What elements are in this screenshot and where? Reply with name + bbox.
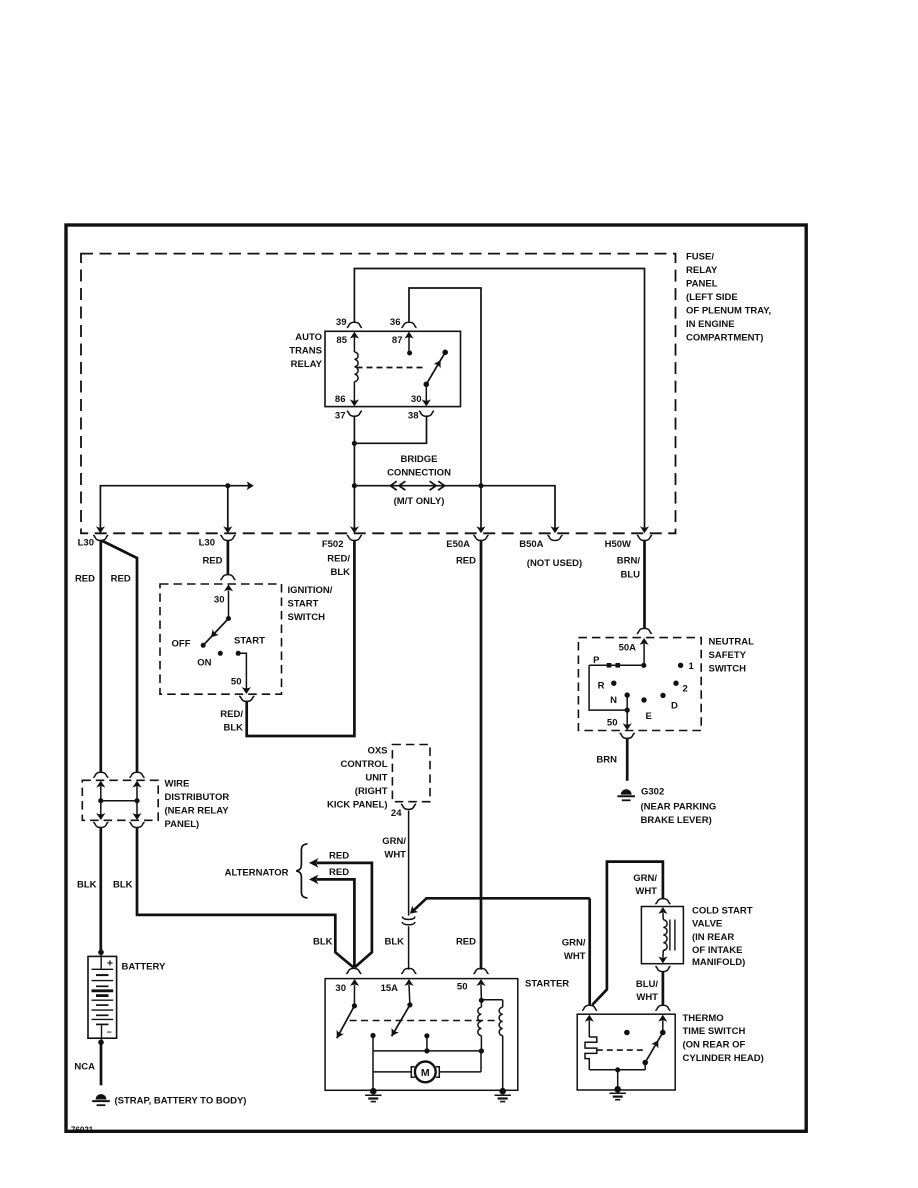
NSS contact 1 [678, 663, 683, 668]
thermo internal bus [589, 1069, 645, 1071]
svg-text:UNIT: UNIT [365, 772, 387, 783]
thermo right terminal [658, 1015, 667, 1022]
connector end above neutral safety switch [637, 628, 652, 633]
auto trans relay K1 outline [325, 331, 461, 406]
svg-text:30: 30 [411, 394, 422, 405]
thermo left terminal [585, 1015, 594, 1022]
wire branch to second L30 [227, 486, 229, 529]
wire GRN/WHT from OXS pin 24 [408, 811, 410, 916]
svg-text:D: D [671, 700, 678, 711]
svg-text:BLK: BLK [313, 936, 333, 947]
wire L30 RED diagonal branch [102, 541, 138, 772]
svg-text:30: 30 [335, 983, 346, 994]
svg-text:G302: G302 [641, 786, 664, 797]
svg-text:50A: 50A [619, 642, 637, 653]
svg-text:RELAY: RELAY [686, 265, 718, 276]
ignition OFF contact [201, 643, 206, 648]
ground G302 [621, 789, 632, 794]
relay pin 86 terminal [350, 399, 359, 406]
thermo free contact [624, 1030, 630, 1036]
starter contact below 30 [370, 1033, 375, 1038]
svg-text:AUTO: AUTO [295, 332, 322, 343]
NSS N contact [625, 692, 630, 697]
cold start valve outline [641, 907, 683, 964]
svg-text:P: P [593, 655, 600, 666]
bridge connection chevrons [390, 481, 396, 490]
wire E50A RED to starter [480, 541, 483, 970]
fuse/relay panel dashed outline [81, 254, 676, 534]
starter internal bus [372, 1036, 374, 1092]
starter solenoid node [479, 998, 484, 1003]
relay switch pivot [424, 382, 430, 388]
svg-text:THERMO: THERMO [683, 1013, 724, 1024]
connector B50A (not used) [547, 535, 562, 540]
svg-text:OF INTAKE: OF INTAKE [692, 945, 743, 956]
bridge connection wire [354, 486, 555, 529]
wire L30 RED to ignition switch [227, 541, 230, 575]
svg-text:BLK: BLK [223, 722, 243, 733]
wire BRN to ground [626, 739, 629, 781]
connector ends above wire distributor [93, 772, 108, 777]
svg-text:RED: RED [75, 573, 95, 584]
relay pin 38 connector [419, 411, 434, 416]
svg-text:87: 87 [392, 335, 403, 346]
wire relay 37/38 junction to F502 [353, 417, 355, 444]
svg-text:50: 50 [231, 676, 242, 687]
distributor output terminals [96, 813, 105, 820]
svg-text:BLK: BLK [330, 567, 350, 578]
starter ground right [499, 1088, 506, 1095]
connector below ignition switch [239, 696, 254, 701]
svg-text:OF PLENUM TRAY,: OF PLENUM TRAY, [686, 305, 771, 316]
svg-text:39: 39 [336, 317, 347, 328]
svg-text:F502: F502 [322, 539, 344, 550]
svg-text:(IN REAR: (IN REAR [692, 932, 734, 943]
svg-text:GRN/: GRN/ [382, 836, 406, 847]
svg-text:RED: RED [202, 555, 222, 566]
svg-text:RED: RED [456, 936, 476, 947]
svg-text:FUSE/: FUSE/ [686, 251, 714, 262]
svg-text:30: 30 [214, 594, 225, 605]
svg-text:CYLINDER HEAD): CYLINDER HEAD) [683, 1053, 764, 1064]
NSS terminal 50 [623, 723, 632, 730]
svg-text:MANIFOLD): MANIFOLD) [692, 957, 745, 968]
svg-text:BLU/: BLU/ [636, 979, 659, 990]
alternator brace [296, 844, 307, 898]
svg-text:GRN/: GRN/ [562, 937, 586, 948]
wire F502 RED/BLK to ignition switch [247, 541, 355, 736]
relay coil [353, 337, 355, 352]
svg-text:(LEFT SIDE: (LEFT SIDE [686, 292, 738, 303]
wire GRN/WHT bridge to cold start valve [592, 862, 663, 1005]
wire GRN/WHT branch to thermo switch [413, 898, 590, 911]
svg-text:BRN/: BRN/ [617, 555, 641, 566]
svg-text:M: M [421, 1067, 430, 1079]
wire H50W BRN/BLU to neutral safety switch [643, 541, 646, 629]
wire BLU/WHT cold start valve to thermo switch [662, 972, 665, 1005]
svg-text:TIME SWITCH: TIME SWITCH [683, 1026, 746, 1037]
svg-text:WIRE: WIRE [165, 778, 190, 789]
starter ground left [370, 1088, 377, 1095]
connector L30 second [220, 535, 235, 540]
connector end above ignition switch [220, 575, 235, 580]
ignition switch lever [203, 619, 228, 646]
svg-text:IGNITION/: IGNITION/ [288, 585, 333, 596]
ignition terminal 50 [238, 653, 246, 688]
node L30 branch [225, 483, 230, 488]
svg-text:(M/T ONLY): (M/T ONLY) [394, 496, 445, 507]
battery outline [88, 956, 117, 1038]
svg-text:RED: RED [329, 851, 349, 862]
svg-text:TRANS: TRANS [289, 345, 322, 356]
relay pin 36 wire to E50A [409, 288, 481, 528]
svg-text:38: 38 [408, 410, 419, 421]
connector F502 [347, 535, 362, 540]
diagram outer border [66, 225, 806, 1131]
NSS terminal 50A [640, 638, 649, 645]
starter switch 15A pivot [407, 1002, 412, 1007]
OXS control unit outline [392, 745, 430, 802]
svg-text:24: 24 [391, 808, 402, 819]
wire feeder to L30 connectors [100, 486, 249, 529]
starter solenoid pull-in coil [480, 1000, 482, 1007]
wire RED alternator upper [309, 858, 319, 868]
starter terminal 30 [350, 979, 359, 986]
svg-text:H50W: H50W [605, 539, 631, 550]
svg-text:N: N [610, 695, 617, 706]
node bridge junction at F502 [352, 483, 357, 488]
connector L30 first [93, 535, 108, 540]
svg-text:RED: RED [456, 555, 476, 566]
svg-text:50: 50 [457, 981, 468, 992]
starter contact below 15A [424, 1033, 429, 1038]
NSS P terminal wire [641, 663, 646, 668]
NSS contact E [641, 697, 646, 702]
svg-text:BLK: BLK [77, 879, 97, 890]
starter dashed link [350, 1020, 498, 1022]
svg-text:WHT: WHT [564, 951, 586, 962]
battery plates [100, 952, 102, 969]
svg-text:STARTER: STARTER [525, 978, 569, 989]
svg-text:(STRAP, BATTERY TO BODY): (STRAP, BATTERY TO BODY) [115, 1095, 247, 1106]
relay switch lever [426, 352, 445, 384]
wire NCA battery to body strap [100, 1042, 103, 1085]
svg-text:(NOT USED): (NOT USED) [527, 558, 582, 569]
node bridge junction at E50A [478, 483, 483, 488]
svg-text:L30: L30 [199, 537, 215, 548]
connectors above thermo time switch [582, 1005, 597, 1010]
wire BLK distributor to starter 30 [137, 828, 354, 968]
starter switch 30 lever [337, 1006, 355, 1038]
svg-text:ALTERNATOR: ALTERNATOR [225, 867, 289, 878]
neutral safety switch outline [578, 638, 701, 731]
svg-text:36: 36 [390, 317, 401, 328]
svg-text:START: START [234, 635, 265, 646]
relay pin 36 connector [401, 322, 416, 327]
svg-text:OFF: OFF [172, 638, 191, 649]
svg-text:(RIGHT: (RIGHT [355, 786, 388, 797]
connector below cold start valve [655, 966, 670, 971]
connector H50W [637, 535, 652, 540]
svg-text:SWITCH: SWITCH [288, 612, 326, 623]
connector ends above starter [346, 968, 361, 973]
svg-text:RED/: RED/ [220, 709, 243, 720]
wire BLK to starter 15A [408, 926, 410, 969]
svg-text:B50A: B50A [519, 539, 543, 550]
svg-text:E: E [646, 711, 652, 722]
starter terminal 15A [404, 979, 413, 986]
svg-text:RED/: RED/ [327, 553, 350, 564]
thermo dashed link [597, 1049, 647, 1051]
cold start valve core [669, 920, 671, 951]
svg-text:1: 1 [689, 661, 695, 672]
starter switch 30 pivot [352, 1003, 357, 1008]
ignition switch pivot [226, 616, 231, 621]
cold start valve bottom terminal [658, 956, 667, 963]
svg-text:E50A: E50A [446, 539, 470, 550]
cold start valve coil [663, 920, 667, 951]
ground strap battery to body [96, 1094, 107, 1099]
svg-text:WHT: WHT [384, 849, 406, 860]
svg-text:37: 37 [335, 410, 346, 421]
svg-text:BRN: BRN [596, 754, 617, 765]
svg-text:WHT: WHT [635, 886, 657, 897]
svg-text:86: 86 [335, 394, 346, 405]
wire RED alternator lower [309, 875, 319, 885]
ignition ON contact [218, 651, 223, 656]
thermo ground [614, 1086, 621, 1093]
svg-text:BLU: BLU [620, 569, 640, 580]
svg-text:PANEL: PANEL [686, 278, 718, 289]
svg-text:VALVE: VALVE [692, 919, 722, 930]
svg-text:BRIDGE: BRIDGE [401, 454, 438, 465]
ignition START contact [236, 651, 241, 656]
svg-text:GRN/: GRN/ [633, 873, 657, 884]
starter solenoid hold-in coil [502, 1000, 504, 1007]
svg-text:(NEAR PARKING: (NEAR PARKING [641, 801, 717, 812]
thermo switch lower contact [642, 1060, 648, 1066]
svg-text:START: START [288, 598, 319, 609]
svg-text:BLK: BLK [113, 879, 133, 890]
starter motor M [373, 1071, 411, 1073]
distributor internal wires [100, 787, 102, 801]
connector below neutral safety switch [620, 733, 635, 738]
connector E50A [473, 535, 488, 540]
svg-text:BATTERY: BATTERY [122, 961, 166, 972]
svg-text:SAFETY: SAFETY [709, 650, 747, 661]
svg-text:OXS: OXS [367, 745, 387, 756]
svg-text:RED: RED [329, 867, 349, 878]
svg-text:BRAKE LEVER): BRAKE LEVER) [641, 815, 712, 826]
svg-text:+: + [107, 958, 113, 970]
OXS pin 24 connector [401, 804, 416, 809]
svg-text:50: 50 [607, 717, 618, 728]
thermo heater element [585, 1037, 597, 1070]
thermo time switch outline [577, 1014, 675, 1090]
relay pin 30 terminal [425, 384, 427, 401]
battery negative node [98, 1040, 104, 1046]
starter switch 15A lever [392, 1005, 410, 1036]
svg-text:KICK PANEL): KICK PANEL) [327, 799, 388, 810]
svg-text:15A: 15A [381, 983, 399, 994]
battery positive node [98, 950, 104, 956]
svg-text:L30: L30 [78, 537, 94, 548]
svg-text:76021: 76021 [71, 1126, 94, 1135]
distributor input terminals [96, 781, 105, 788]
wire BLK distributor to battery [99, 828, 102, 952]
svg-text:DISTRIBUTOR: DISTRIBUTOR [165, 792, 230, 803]
svg-text:ON: ON [197, 657, 211, 668]
svg-text:SWITCH: SWITCH [709, 663, 747, 674]
NSS contact 2 [673, 681, 678, 686]
starter terminal 50 [476, 979, 485, 986]
connectors below wire distributor [93, 822, 108, 827]
thermo switch lever [645, 1033, 663, 1063]
starter outline [325, 979, 518, 1091]
svg-text:COLD START: COLD START [692, 905, 753, 916]
cold start valve top terminal [658, 907, 667, 914]
svg-text:CONNECTION: CONNECTION [387, 467, 451, 478]
wire distributor outline [82, 780, 158, 820]
svg-text:RED: RED [111, 573, 131, 584]
thermo switch upper contact [660, 1030, 666, 1036]
svg-text:PANEL): PANEL) [165, 819, 200, 830]
NSS contact R [611, 681, 616, 686]
ignition terminal 30 [224, 584, 233, 591]
svg-text:IN ENGINE: IN ENGINE [686, 319, 735, 330]
svg-text:2: 2 [683, 683, 688, 694]
relay armature dashed link [357, 367, 425, 369]
relay pin 87 terminal [404, 332, 413, 339]
relay pin 39 wire to H50W [354, 269, 644, 529]
NSS contact D [660, 693, 665, 698]
relay pin 39 connector [347, 322, 362, 327]
svg-text:NEUTRAL: NEUTRAL [709, 636, 755, 647]
wire GRN/WHT to thermo time switch [588, 898, 591, 1004]
connector above cold start valve [655, 899, 670, 904]
ignition/start switch outline [160, 584, 282, 694]
svg-text:85: 85 [336, 335, 347, 346]
svg-text:R: R [598, 680, 605, 691]
svg-text:(ON REAR OF: (ON REAR OF [683, 1040, 746, 1051]
relay pin 85 terminal [350, 332, 359, 339]
relay pin 87 contact [407, 351, 412, 356]
svg-text:(NEAR RELAY: (NEAR RELAY [165, 805, 230, 816]
inline connector on OXS wire [402, 917, 415, 920]
svg-text:WHT: WHT [636, 992, 658, 1003]
wire L30 RED vertical to distributor [99, 541, 102, 772]
svg-text:COMPARTMENT): COMPARTMENT) [686, 332, 763, 343]
svg-text:BLK: BLK [384, 936, 404, 947]
relay switch contact [442, 350, 448, 356]
svg-text:NCA: NCA [74, 1061, 95, 1072]
NSS output junction [625, 708, 630, 713]
relay pin 37 connector [347, 411, 362, 416]
svg-text:CONTROL: CONTROL [341, 759, 388, 770]
svg-text:RELAY: RELAY [291, 359, 323, 370]
svg-text:–: – [107, 1026, 112, 1036]
